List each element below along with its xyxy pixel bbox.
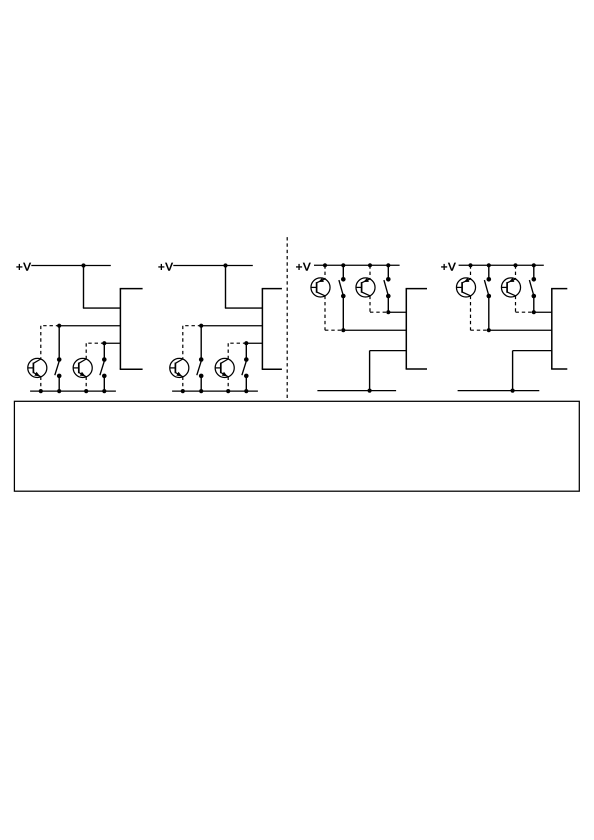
wire +V rail (gate 2) bbox=[173, 265, 253, 267]
wire gate body to ground drop (gate 4) bbox=[513, 351, 552, 391]
wire switch SW2 to ground rail bbox=[103, 376, 105, 391]
wire +V rail to switch SW5 (gate 3) bbox=[342, 265, 344, 278]
wire switch SW1 to ground rail bbox=[58, 376, 60, 391]
dashed link +V rail to transistor Q5 emitter bbox=[324, 265, 326, 279]
switch SW5 (equivalent of Q5) bbox=[339, 277, 346, 298]
wire ground rail (gate 4) bbox=[458, 390, 540, 392]
node Vcc junction (gate 2) bbox=[223, 263, 227, 267]
node ground junction (gate 3) bbox=[368, 389, 372, 393]
transistor Q5 bbox=[311, 278, 330, 297]
wire switch SW7 to node A (gate 4) bbox=[488, 296, 490, 330]
wire input A to gate body (gate 2) bbox=[201, 325, 262, 327]
wire node B to switch SW4 (gate 2) bbox=[245, 343, 247, 358]
dashed link transistor Q4 emitter to ground rail bbox=[227, 377, 229, 392]
node A junction (gate 3) bbox=[341, 328, 345, 332]
switch SW8 (equivalent of Q8) bbox=[529, 277, 536, 298]
wire node A to switch SW3 (gate 2) bbox=[200, 326, 202, 359]
wire +V to gate body (gate 2) bbox=[225, 266, 263, 309]
wire +V rail (gate 3) bbox=[314, 264, 400, 266]
transistor Q7 bbox=[456, 278, 475, 297]
wire switch SW8 to node B (gate 4) bbox=[533, 296, 535, 312]
dashed link transistor Q3 emitter to ground rail bbox=[182, 377, 184, 392]
power +V label (gate 4) bbox=[441, 263, 456, 271]
+V rail junctions (gate 4) bbox=[468, 263, 536, 267]
dashed link +V rail to transistor Q6 emitter bbox=[369, 265, 371, 279]
gate body partial box (gate 3) bbox=[406, 289, 427, 369]
power +V label (gate 3) bbox=[296, 263, 311, 271]
dashed link node A to transistor Q3 collector bbox=[183, 326, 201, 360]
wire ground rail (gate 1) bbox=[30, 390, 116, 392]
dashed link transistor Q2 emitter to ground rail bbox=[85, 377, 87, 392]
switch SW6 (equivalent of Q6) bbox=[384, 277, 391, 298]
wire +V rail (gate 1) bbox=[31, 265, 111, 267]
wire input B to gate body (gate 1) bbox=[104, 342, 120, 344]
wire switch SW3 to ground rail bbox=[200, 376, 202, 391]
gate body partial box (gate 4) bbox=[551, 289, 567, 369]
switch SW2 (equivalent of Q2) bbox=[100, 357, 107, 378]
wire node B to gate body (gate 3) bbox=[388, 311, 406, 313]
node B junction (gate 3) bbox=[386, 310, 390, 314]
node B junction (gate 2) bbox=[244, 341, 248, 345]
switch SW1 (equivalent of Q1) bbox=[55, 357, 62, 378]
transistor Q8 bbox=[501, 278, 520, 297]
dashed link +V rail to transistor Q8 emitter bbox=[515, 265, 517, 279]
wire switch SW5 to node A (gate 3) bbox=[342, 296, 344, 330]
dashed column divider bbox=[286, 237, 288, 399]
power +V label (gate 2) bbox=[158, 263, 173, 271]
wire switch SW6 to node B (gate 3) bbox=[387, 296, 389, 312]
dashed link transistor Q1 emitter to ground rail bbox=[40, 377, 42, 392]
wire +V rail to switch SW7 (gate 4) bbox=[488, 265, 490, 278]
node A junction (gate 4) bbox=[487, 328, 491, 332]
wire input A to gate body (gate 1) bbox=[59, 325, 120, 327]
wire +V rail to switch SW8 (gate 4) bbox=[533, 265, 535, 278]
dashed link transistor Q6 collector to node B bbox=[370, 296, 388, 313]
transistor Q3 bbox=[170, 358, 189, 377]
dashed link transistor Q5 collector to node A bbox=[325, 296, 343, 331]
wire node A to switch SW1 (gate 1) bbox=[58, 326, 60, 359]
ground rail junctions (gate 2) bbox=[181, 389, 249, 393]
transistor Q1 bbox=[28, 358, 47, 377]
switch SW3 (equivalent of Q3) bbox=[197, 357, 204, 378]
wire gate body to ground drop (gate 3) bbox=[370, 351, 407, 391]
wire +V to gate body (gate 1) bbox=[83, 266, 121, 309]
node A junction (gate 2) bbox=[199, 324, 203, 328]
dashed link node B to transistor Q4 collector bbox=[228, 343, 246, 359]
node ground junction (gate 4) bbox=[510, 389, 514, 393]
node Vcc junction (gate 1) bbox=[81, 263, 85, 267]
+V rail junctions (gate 3) bbox=[323, 263, 391, 267]
transistor Q4 bbox=[215, 358, 234, 377]
wire node A to gate body (gate 4) bbox=[489, 329, 552, 331]
wire +V rail (gate 4) bbox=[459, 264, 544, 266]
wire node A to gate body (gate 3) bbox=[343, 329, 406, 331]
wire switch SW4 to ground rail bbox=[245, 376, 247, 391]
gate body partial box (gate 1) bbox=[120, 289, 143, 370]
node B junction (gate 4) bbox=[532, 310, 536, 314]
node A junction (gate 1) bbox=[57, 324, 61, 328]
wire node B to switch SW2 (gate 1) bbox=[103, 343, 105, 358]
dashed link transistor Q7 collector to node A bbox=[471, 296, 489, 331]
switch SW4 (equivalent of Q4) bbox=[242, 357, 249, 378]
wire +V rail to switch SW6 (gate 3) bbox=[387, 265, 389, 278]
wire ground rail (gate 2) bbox=[172, 390, 258, 392]
wire ground rail (gate 3) bbox=[317, 390, 396, 392]
empty figure caption box bbox=[14, 401, 579, 491]
wire node B to gate body (gate 4) bbox=[534, 311, 552, 313]
transistor Q6 bbox=[356, 278, 375, 297]
wire input B to gate body (gate 2) bbox=[246, 342, 262, 344]
dashed link +V rail to transistor Q7 emitter bbox=[470, 265, 472, 279]
ground rail junctions (gate 1) bbox=[39, 389, 107, 393]
gate body partial box (gate 2) bbox=[262, 289, 282, 370]
dashed link transistor Q8 collector to node B bbox=[516, 296, 534, 313]
transistor Q2 bbox=[73, 358, 92, 377]
dashed link node A to transistor Q1 collector bbox=[41, 326, 59, 360]
power +V label (gate 1) bbox=[16, 263, 31, 271]
dashed link node B to transistor Q2 collector bbox=[86, 343, 104, 359]
switch SW7 (equivalent of Q7) bbox=[484, 277, 491, 298]
node B junction (gate 1) bbox=[102, 341, 106, 345]
